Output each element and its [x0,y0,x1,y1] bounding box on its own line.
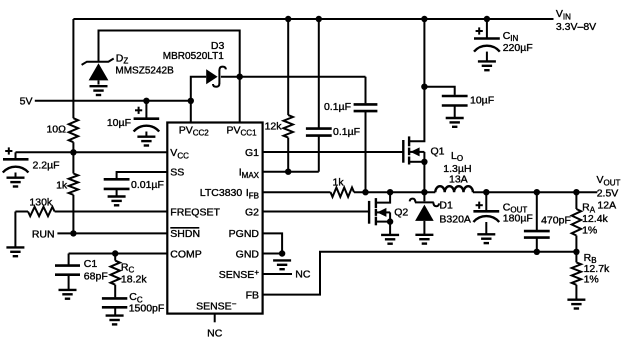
wire: SS pin to 0.01uF [117,172,168,178]
node: Q1 drain on top rail [421,16,427,22]
diode D3 MBR0520LT1 (schottky) [191,67,226,123]
svg-text:PGND: PGND [229,228,260,240]
svg-text:12A: 12A [597,199,616,211]
ground (RB) [567,300,585,309]
node: PGND/GND junction [279,250,285,256]
wire: SENSE- stub (NC) [214,314,216,323]
wire: D3 cathode to boost cap [221,76,366,78]
svg-text:LTC3830: LTC3830 [200,187,243,199]
wire: VOUT rail [473,191,597,193]
capacitor C1 68pF [55,254,80,290]
node: 12k on top rail [285,16,291,22]
ground (COUT) [477,234,495,243]
capacitor 2.2uF (VCC, polarized) [3,152,29,177]
wire: G2 row to Q2 gate [263,211,370,213]
svg-text:1500pF: 1500pF [129,302,165,314]
node: RA/RB/FB junction [573,249,579,255]
svg-text:SENSE−: SENSE− [196,300,237,313]
svg-text:1k: 1k [333,176,345,188]
svg-text:2.2µF: 2.2µF [33,159,60,171]
resistor RB 12.7k [575,252,577,263]
wire: Dz / PVcc1 loop [99,31,240,123]
svg-text:1k: 1k [56,180,68,192]
pin SHDN overline [170,227,199,229]
wire: top VIN rail [73,18,553,20]
inductor LO 1.3uH [435,186,473,192]
wire: FREQSET row [15,211,28,213]
node: 470pF on FB wire [534,249,540,255]
svg-text:470pF: 470pF [541,215,571,227]
svg-text:2.5V: 2.5V [597,188,619,200]
node: boost cap / switch node [362,189,368,195]
node: COMP / Rc junction [112,250,118,256]
capacitor CIN 220uF (polarized) [474,19,500,61]
wire: IFB row / switch node [263,191,331,193]
transistor Q2 (N-MOSFET) [369,192,390,235]
ground (IC GND) [273,260,291,269]
resistor RC 18.2k [114,254,116,261]
resistor 1k (SHDN pullup) [72,152,74,173]
wire: IMAX row [263,171,319,173]
svg-text:GND: GND [236,249,260,261]
capacitor 0.01uF (soft start) [104,179,130,189]
svg-text:5V: 5V [20,96,33,108]
node: 0.1uF on top rail [316,16,322,22]
svg-text:FREQSET: FREQSET [170,207,220,219]
wire: COMP row [69,253,168,255]
wire: 10ohm filter drop from top rail [72,19,74,118]
svg-text:10µF: 10µF [107,117,131,129]
svg-text:G1: G1 [245,147,259,159]
svg-text:3.3V–8V: 3.3V–8V [556,21,596,33]
node: D3 cathode / PVcc1 junction [237,74,243,80]
svg-text:C1: C1 [84,258,98,270]
wire: RUN / SHDN row [57,232,167,234]
capacitor 470pF (feedforward) [536,192,538,230]
capacitor 10uF (VIN bypass) [442,96,468,106]
svg-text:FB: FB [246,290,259,302]
ground (C1) [59,290,77,299]
node: Q1 source / D1 / switch node [421,189,427,195]
node: RA on VOUT rail [573,189,579,195]
svg-text:D3: D3 [211,40,225,52]
node: COUT on VOUT rail [483,189,489,195]
resistor 130k (FREQSET) [28,207,55,216]
resistor 12k (IMAX) [287,19,289,115]
svg-text:18.2k: 18.2k [121,273,147,285]
svg-text:Q2: Q2 [394,206,408,218]
svg-text:B320A: B320A [439,213,471,225]
node: Q2 drain / switch node [387,189,393,195]
wire: GND pin [263,253,283,255]
ground (0.01uF) [108,197,126,206]
node: Q1 source junction [421,159,427,165]
svg-text:13A: 13A [449,174,468,186]
ground (2.2uF) [7,178,25,187]
svg-text:NC: NC [207,328,223,340]
node: 10uF bypass tap on 5V rail [143,98,149,104]
svg-text:0.1µF: 0.1µF [333,126,360,138]
ground (Q2) [381,235,399,244]
svg-text:0.01µF: 0.01µF [131,179,164,191]
wire: FB pin to divider [263,252,577,295]
svg-text:1%: 1% [582,224,597,236]
node: PVcc2 / D3 anode junction [188,98,194,104]
svg-text:180µF: 180µF [503,213,533,225]
node: CIN on top rail [484,16,490,22]
capacitor 10uF (5V bypass, polarized) [134,101,160,137]
ground (Cc) [106,316,124,325]
capacitor CC 1500pF [114,285,116,298]
svg-text:220µF: 220µF [503,42,533,54]
svg-text:10Ω: 10Ω [46,123,66,135]
svg-text:0.1µF: 0.1µF [324,101,351,113]
svg-text:RUN: RUN [32,229,55,241]
svg-text:12k: 12k [265,120,283,132]
svg-text:MMSZ5242B: MMSZ5242B [115,65,174,76]
node: RUN / 1k junction [70,230,76,236]
svg-text:1%: 1% [584,274,599,286]
svg-text:Q1: Q1 [431,145,445,157]
svg-text:MBR0520LT1: MBR0520LT1 [163,51,224,62]
svg-text:10µF: 10µF [470,94,494,106]
ground (CIN) [478,61,496,70]
node: VCC / 10ohm / 1k junction [70,149,76,155]
wire: SENSE+ stub (NC) [263,273,292,275]
svg-text:68pF: 68pF [84,271,108,283]
wire: tap to 10uF [424,87,454,95]
svg-text:D1: D1 [439,199,453,211]
svg-text:SS: SS [170,167,184,179]
svg-text:12.4k: 12.4k [582,213,608,225]
node: Q2 source junction [387,218,393,224]
node: 12k / IMAX junction [285,169,291,175]
svg-text:NC: NC [295,268,311,280]
transistor Q1 (N-MOSFET) [403,19,424,192]
wire: G1 row to Q1 gate [263,151,404,153]
svg-text:SHDN: SHDN [170,228,200,240]
ground (130k) [6,247,24,256]
capacitor COUT 180uF (polarized) [473,192,499,234]
diode D1 B320A (schottky catch) [410,192,439,235]
capacitor 0.1uF (boost) [365,77,367,104]
IC U1 LTC3830 body [167,123,262,314]
resistor 1k (IFB sense) [331,188,355,197]
wire: 130k to ground [14,212,16,248]
ground (D1) [415,235,433,244]
svg-text:SENSE+: SENSE+ [219,268,260,281]
resistor RA 12.4k [575,192,577,209]
node: 10uF VIN bypass tap [421,84,427,90]
svg-text:130k: 130k [29,196,53,208]
ground (Dz) [90,86,108,95]
wire: PGND pin to ground [263,233,283,253]
wire: 10ohm to VCC [72,142,74,152]
svg-text:COMP: COMP [170,249,202,261]
capacitor 0.1uF (PVcc1 bypass, on top rail) [318,19,320,128]
ground (10uF VIN) [446,118,464,127]
node: 470pF on VOUT rail [534,189,540,195]
resistor 10ohm [69,118,78,142]
zener diode DZ MMSZ5242B [82,59,114,85]
ground (10uF 5V bypass) [137,137,155,146]
wire: VCC row [16,151,168,153]
svg-text:G2: G2 [245,207,259,219]
wire: 5V input rail [35,100,191,102]
